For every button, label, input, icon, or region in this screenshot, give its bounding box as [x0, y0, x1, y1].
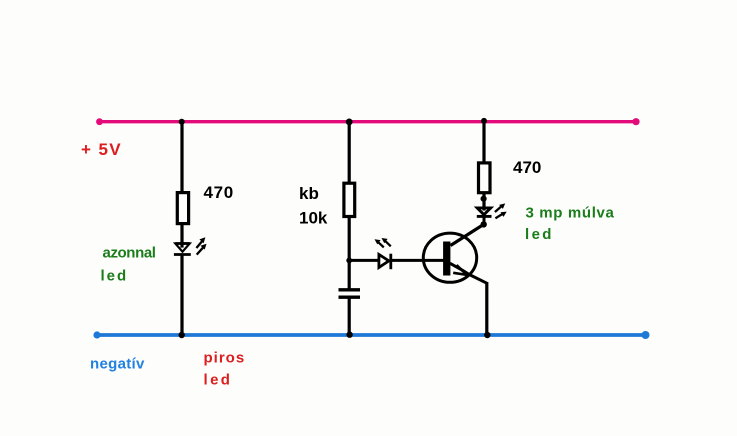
wire: emitter diagonal — [450, 263, 487, 283]
LED D3 (3 mp mulva led) — [477, 192, 492, 216]
node: collector junction dot — [481, 221, 487, 227]
wire: +5V rail to R3 — [482, 121, 485, 163]
svg-text:led: led — [204, 372, 233, 389]
svg-text:10k: 10k — [299, 209, 328, 228]
svg-text:3 mp múlva: 3 mp múlva — [526, 205, 615, 222]
D1 light arrows — [196, 237, 206, 254]
svg-text:negatív: negatív — [90, 356, 145, 373]
+5V rail — [96, 118, 640, 125]
capacitor C1 — [339, 290, 361, 297]
svg-text:470: 470 — [513, 158, 541, 177]
wire: emitter to negative rail — [485, 282, 488, 335]
node A: junction dot left branch / +5V rail — [179, 119, 185, 125]
svg-text:led: led — [525, 226, 554, 243]
wire: D2 to transistor base — [392, 259, 444, 262]
svg-text:+ 5V: + 5V — [81, 140, 122, 159]
wire: R2 to base node — [348, 216, 351, 290]
resistor R3 (470) — [479, 163, 491, 193]
wire: C1 to negative rail — [348, 298, 351, 335]
negative rail — [93, 331, 649, 339]
resistor R1 — [177, 193, 188, 224]
transistor Q1 — [423, 233, 476, 282]
wire: +5V rail to R2 — [348, 121, 351, 183]
wire: +5V rail to R1 — [180, 121, 183, 193]
wire: D3 cathode to collector dot — [483, 217, 486, 224]
emitter arrowhead — [453, 265, 467, 275]
node: junction dot middle branch / +5V rail — [346, 119, 353, 126]
LED D1 (azonnal led) — [174, 224, 191, 255]
node: junction dot left branch / negative rail — [179, 332, 185, 338]
node: junction dot emitter / negative rail — [484, 332, 490, 338]
svg-text:kb: kb — [299, 184, 319, 203]
wire: base node to D2 — [349, 259, 379, 262]
node: dot between R3 and D3 — [481, 196, 487, 202]
LED D2 (coupling diode) — [379, 254, 391, 270]
wire: collector diagonal — [451, 224, 484, 245]
node B: base node dot — [346, 258, 352, 264]
node: junction dot middle branch / negative rail — [346, 332, 352, 338]
D3 light arrows — [495, 203, 507, 218]
node: junction dot right branch / +5V rail — [481, 118, 487, 124]
wire: D1 to negative rail — [180, 255, 183, 335]
svg-text:led: led — [101, 268, 129, 285]
svg-text:azonnal: azonnal — [103, 245, 156, 262]
svg-text:470: 470 — [204, 183, 234, 202]
resistor R2 (10k) — [344, 183, 355, 216]
svg-text:piros: piros — [204, 350, 246, 367]
D2 light arrows — [375, 238, 391, 247]
